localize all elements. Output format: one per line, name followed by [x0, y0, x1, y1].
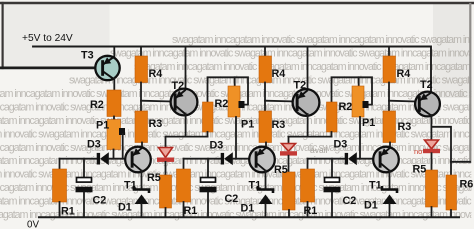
- wire T1 emitter to D1 (stage 3): [389, 171, 391, 189]
- capacitor C2 (stage 3): [325, 178, 340, 183]
- wire D3 to T1 base (stage 3): [357, 158, 374, 160]
- svg-text:R5: R5: [147, 172, 161, 184]
- resistor R1 (stage 2): [177, 169, 191, 202]
- wire R1-C2-D3 node (stage 2): [184, 158, 222, 160]
- wire R1-C2-D3 node (stage 3): [308, 158, 346, 160]
- svg-text:T1: T1: [369, 180, 382, 192]
- svg-text:D1: D1: [118, 202, 132, 214]
- svg-text:swagatam inncagatam innovatic: swagatam inncagatam innovatic swagatam i…: [0, 169, 474, 181]
- resistor R5 stage3: [426, 170, 438, 207]
- wire emitter branch to R6 stage3: [431, 127, 451, 175]
- wire R4 to R3 (stage 1): [140, 83, 142, 112]
- wire C2 top stub (stage 1): [83, 159, 85, 178]
- wire D3 to T1 base (stage 2): [233, 158, 250, 160]
- preset P1 (stage 3): [352, 86, 364, 117]
- svg-text:+5V to 24V: +5V to 24V: [22, 33, 73, 44]
- wire D1 to 0V (stage 3): [389, 204, 391, 217]
- preset P1 (stage 2): [228, 86, 240, 117]
- right gray border: [469, 4, 471, 162]
- transistor T1 (stage 3): [373, 147, 399, 173]
- resistor R2 (stage 2): [203, 102, 214, 132]
- svg-text:swagatam inncagatam innovatic: swagatam inncagatam innovatic swagatam i…: [110, 48, 474, 60]
- wire LED to R5 stage2: [288, 156, 290, 172]
- transistor T2 stage1: [171, 89, 198, 116]
- diode D3 (stage 3): [345, 153, 348, 165]
- wire R1 to 0V (stage 1): [59, 202, 61, 217]
- wire D1 to 0V (stage 2): [265, 204, 267, 217]
- zener D1 (stage 2): [258, 186, 273, 193]
- wire P1 bottom stage1: [113, 150, 115, 159]
- capacitor C2 (stage 1): [77, 178, 92, 183]
- wire R1-C2-D3 node (stage 1): [60, 158, 98, 160]
- svg-text:T3: T3: [81, 50, 94, 62]
- svg-text:T2: T2: [420, 79, 433, 91]
- resistor R3 (stage 2): [259, 111, 272, 143]
- wire C2 to 0V (stage 2): [207, 193, 209, 217]
- zener D1 (stage 3): [382, 186, 397, 193]
- wire R4 to R3 (stage 2): [264, 83, 266, 112]
- svg-text:0V: 0V: [27, 220, 39, 230]
- svg-text:T2: T2: [294, 80, 307, 92]
- +V rail: [33, 47, 431, 93]
- svg-text:R1: R1: [61, 206, 75, 218]
- svg-text:P1: P1: [96, 120, 109, 132]
- wire P1 top stub (stage 3): [358, 77, 360, 86]
- wire to LED stage2: [288, 137, 290, 144]
- LED stage1: [159, 148, 173, 158]
- svg-text:R4: R4: [272, 68, 286, 80]
- wire T3 collector to R2: [113, 79, 115, 92]
- wire base branch to T2 (stage 1): [141, 100, 172, 103]
- transistor T2 stage2: [293, 89, 320, 116]
- resistor R1 (stage 1): [53, 169, 67, 202]
- wire R5 to 0V stage1: [165, 208, 167, 217]
- left border: [1, 3, 3, 68]
- transistor T1 (stage 1): [125, 147, 151, 173]
- capacitor C2 (stage 2): [201, 178, 216, 183]
- svg-text:swagatam inncagatam innovatic: swagatam inncagatam innovatic swagatam i…: [0, 155, 474, 167]
- svg-text:no: no: [414, 147, 422, 156]
- wire T2 emitter down stage3: [430, 115, 432, 140]
- wire T2 collector to rail stage2: [307, 47, 309, 90]
- wire C2 to 0V (stage 3): [331, 193, 333, 217]
- wire +V to R4 (stage 3): [388, 47, 390, 57]
- wire R3 to T1 collector (stage 3): [389, 143, 391, 148]
- zener D1 (stage 1): [134, 186, 149, 193]
- wire R2 top L-net (stage 2): [208, 77, 249, 104]
- resistor R1 (stage 3): [301, 169, 315, 202]
- wire LED to R5 stage1: [165, 162, 167, 175]
- svg-text:T2: T2: [172, 80, 185, 92]
- wire R3 to T1 collector (stage 1): [141, 143, 143, 148]
- wire node to R1 (stage 1): [59, 159, 61, 169]
- svg-text:D3: D3: [210, 140, 224, 152]
- wire emitter bus stage1: [166, 136, 208, 138]
- LED stage3: [425, 140, 439, 149]
- wire T3 emitter to +V rail: [113, 47, 115, 59]
- resistor R3 (stage 3): [383, 111, 396, 143]
- wire C2 top stub (stage 2): [207, 159, 209, 178]
- svg-text:P1: P1: [362, 117, 375, 129]
- wire C2 top stub (stage 3): [331, 159, 333, 178]
- wire +V to R4 (stage 1): [140, 47, 142, 57]
- wire T3 base (thick, to left edge): [0, 67, 96, 70]
- svg-text:C2: C2: [225, 193, 239, 205]
- svg-text:P1: P1: [241, 119, 254, 131]
- svg-text:R3: R3: [272, 119, 286, 131]
- wire to LED stage1: [165, 137, 167, 148]
- wire R5 to 0V stage3: [431, 207, 433, 217]
- svg-text:D1: D1: [241, 203, 255, 215]
- wire R2 bottom stub (stage 3): [331, 132, 333, 137]
- svg-text:R3: R3: [149, 118, 163, 130]
- resistor R5 stage2: [283, 172, 296, 210]
- LED stage2: [282, 144, 296, 152]
- top border: [0, 2, 474, 4]
- wire R3 to T1 collector (stage 2): [265, 143, 267, 148]
- svg-text:swagatam inncagatam innovatic: swagatam inncagatam innovatic swagatam i…: [172, 34, 474, 46]
- wire base branch to T2 (stage 2): [265, 100, 296, 103]
- resistor R2 (stage 3): [327, 102, 338, 132]
- svg-text:D1: D1: [364, 200, 378, 212]
- diode D3 (stage 2): [221, 153, 224, 165]
- svg-text:R6: R6: [460, 179, 474, 191]
- wire P1 bottom (stage 2): [235, 117, 237, 159]
- wire node to R1 (stage 3): [307, 159, 309, 169]
- svg-text:swagatam inncagatam innovatic: swagatam inncagatam innovatic swagatam i…: [0, 142, 474, 154]
- svg-text:R4: R4: [397, 68, 411, 80]
- wire C2 to 0V (stage 1): [83, 193, 85, 217]
- svg-text:R4: R4: [149, 68, 163, 80]
- wire D3 to T1 base (stage 1): [109, 158, 126, 160]
- wire R2-P1 junction: [113, 117, 115, 120]
- transistor T1 (stage 2): [249, 147, 275, 173]
- resistor R4 (stage 2): [259, 56, 272, 83]
- svg-text:R1: R1: [184, 205, 198, 217]
- wire LED to R5 stage3: [431, 153, 433, 170]
- resistor R4 (stage 3): [383, 56, 396, 83]
- svg-text:D3: D3: [87, 139, 101, 151]
- preset P1 wiper tab (stage 3): [363, 101, 369, 108]
- wire R1 to 0V (stage 2): [183, 202, 185, 217]
- wire T2 collector to rail stage1: [185, 47, 187, 90]
- gray panel top-left: [4, 4, 110, 67]
- svg-text:avail: avail: [310, 145, 328, 155]
- wire D1 to 0V (stage 1): [141, 204, 143, 217]
- wire +V to R4 (stage 2): [264, 47, 266, 57]
- watermark: [0, 34, 474, 221]
- svg-text:T1: T1: [124, 180, 137, 192]
- svg-text:R2: R2: [339, 101, 353, 113]
- wire T1 emitter to D1 (stage 1): [141, 171, 143, 189]
- svg-text:R5: R5: [274, 164, 288, 176]
- svg-text:R1: R1: [304, 205, 318, 217]
- resistor R6: [446, 175, 457, 210]
- wire R6 branch to edge stage3: [451, 161, 470, 163]
- preset P1 (stage 1): [107, 120, 121, 150]
- wire R4 to R3 (stage 3): [388, 83, 390, 112]
- wire emitter bus stage2: [289, 136, 332, 138]
- wire node to R1 (stage 2): [183, 159, 185, 169]
- svg-text:D3: D3: [334, 139, 348, 151]
- svg-text:R5: R5: [413, 164, 427, 176]
- gray panel top-right: [433, 4, 470, 98]
- wire R5 to 0V stage2: [288, 210, 290, 217]
- diode D3 (stage 1): [97, 153, 100, 165]
- svg-text:C2: C2: [93, 195, 107, 207]
- resistor R4 (stage 1): [135, 56, 148, 83]
- wire R1 to 0V (stage 3): [307, 202, 309, 217]
- wire base branch to T2 (stage 3): [389, 100, 416, 103]
- svg-text:R3: R3: [398, 121, 412, 133]
- wire P1 wiper down stage1: [122, 134, 124, 159]
- 0V rail: [39, 216, 459, 218]
- wire P1 top stub (stage 2): [234, 77, 236, 86]
- right white strip: [471, 3, 474, 229]
- svg-text:R2: R2: [215, 98, 229, 110]
- wire T1 emitter to D1 (stage 2): [265, 171, 267, 189]
- resistor R2 (stage 1): [107, 90, 121, 117]
- wire P1 bottom (stage 3): [359, 117, 361, 159]
- wire R2 bottom stub (stage 2): [207, 132, 209, 137]
- wire T2 emitter down stage2: [307, 114, 309, 137]
- svg-text:T1: T1: [249, 180, 262, 192]
- transistor T2 stage3: [415, 92, 440, 117]
- transistor T3: [95, 56, 119, 80]
- svg-text:R2: R2: [90, 99, 104, 111]
- resistor R5 stage1: [160, 175, 172, 208]
- preset P1 wiper tab stage1: [119, 128, 125, 135]
- preset P1 wiper tab (stage 2): [239, 101, 245, 108]
- wire R2 top L-net (stage 3): [332, 77, 373, 104]
- svg-text:C2: C2: [343, 195, 357, 207]
- resistor R3 (stage 1): [135, 111, 148, 143]
- wire R6 to 0V: [450, 210, 452, 217]
- wire T2 emitter down stage1: [185, 114, 187, 137]
